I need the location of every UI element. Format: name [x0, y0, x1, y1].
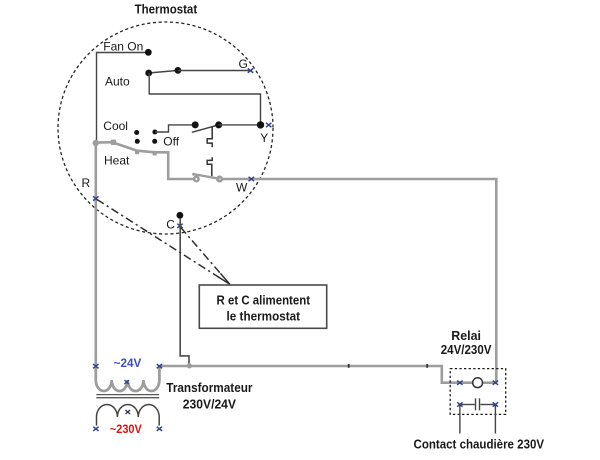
- terminal relay coil right (x mark): [493, 381, 498, 385]
- center tap mark primary (x mark): [126, 410, 131, 414]
- svg-text:R et C alimentent: R et C alimentent: [217, 293, 311, 308]
- contact cool row right (dot): [152, 130, 157, 135]
- contact nub heat row left: [135, 150, 139, 155]
- wire R riser (gray) to transformer: [95, 143, 98, 366]
- svg-text:~24V: ~24V: [114, 358, 142, 370]
- svg-text:Transformateur: Transformateur: [166, 380, 252, 395]
- transformer core lines: [96, 395, 159, 398]
- terminal transformer 24V right (x mark): [157, 364, 162, 368]
- svg-text:Cool: Cool: [103, 119, 128, 133]
- terminal transformer 24V left (x mark): [93, 364, 98, 368]
- svg-text:C: C: [166, 217, 175, 231]
- relay coil (circle): [473, 378, 483, 388]
- transformer primary coil (dark): [97, 405, 160, 426]
- svg-text:le thermostat: le thermostat: [227, 308, 301, 323]
- terminal Y (x mark): [266, 123, 271, 127]
- switch cool (open blade): [192, 121, 223, 132]
- node junction C/bus (gray dot): [187, 363, 192, 368]
- contact off row left (dot): [135, 139, 140, 144]
- wire 24V bus (gray) transformer to relay coil: [159, 366, 473, 383]
- terminal contact right (x mark): [493, 402, 498, 406]
- contact off row right (dot): [152, 139, 157, 144]
- mechanical link cool/heat (zigzag dashed): [207, 127, 212, 176]
- svg-text:Off: Off: [163, 135, 179, 149]
- pivot blob on heat blade: [111, 140, 116, 145]
- node Y junction (dot): [257, 121, 264, 128]
- svg-text:W: W: [236, 181, 248, 195]
- terminal C (dot): [177, 212, 184, 219]
- terminal relay coil left (x mark): [457, 381, 462, 385]
- callout leader from R (dash-dot): [97, 200, 230, 285]
- svg-text:Heat: Heat: [104, 154, 130, 168]
- terminal transformer 230V left (x mark): [93, 427, 98, 431]
- switch fan selector blade (Auto position): [145, 67, 181, 76]
- junction tick on bus (left): [348, 364, 350, 368]
- relay enclosure (dashed box): [450, 369, 506, 415]
- terminal contact left (x mark): [457, 402, 462, 406]
- contact nub heat row right: [153, 151, 157, 156]
- contact Fan On (dot): [145, 49, 152, 56]
- relay contact (normally open): [460, 398, 496, 410]
- svg-text:230V/24V: 230V/24V: [183, 396, 237, 411]
- svg-text:24V/230V: 24V/230V: [441, 342, 492, 357]
- svg-text:Relai: Relai: [451, 328, 481, 343]
- wire C to 24V bus: [180, 218, 189, 366]
- wire relay coil to W line (gray): [481, 381, 497, 384]
- wire W (gray) to relay: [221, 179, 496, 383]
- callout leader from C (dash-dot): [181, 228, 230, 285]
- terminal G (x mark): [248, 68, 253, 72]
- center tap mark secondary (x mark): [124, 380, 129, 384]
- terminal transformer 230V right (x mark): [157, 427, 162, 431]
- svg-text:R: R: [82, 176, 91, 190]
- svg-text:G: G: [239, 57, 248, 71]
- switch heat (closed blade, gray): [192, 173, 222, 182]
- terminal W (x mark): [249, 177, 254, 181]
- terminal C (x mark): [177, 224, 182, 228]
- thermostat enclosure (dashed circle): [58, 22, 273, 234]
- wire contact output right: [494, 405, 496, 434]
- wire cool switch to Y node: [219, 124, 261, 126]
- wire fan blade to G terminal: [178, 70, 251, 72]
- svg-text:Auto: Auto: [105, 75, 130, 89]
- svg-text:~230V: ~230V: [110, 422, 142, 436]
- svg-text:Y: Y: [260, 131, 268, 145]
- blade heat selector (gray): [96, 142, 194, 179]
- wire R riser to Fan On contact: [97, 53, 149, 143]
- callout box: [199, 285, 326, 328]
- wire auto contact to Y node: [149, 73, 260, 125]
- svg-text:Fan On: Fan On: [103, 39, 143, 53]
- svg-text:Thermostat: Thermostat: [135, 2, 198, 17]
- contact cool row left (dot): [134, 130, 139, 135]
- junction tick on bus (right): [426, 364, 428, 368]
- wire contact output left: [459, 405, 461, 434]
- svg-text:Contact chaudière 230V: Contact chaudière 230V: [414, 436, 545, 451]
- transformer secondary coil (gray): [96, 367, 160, 391]
- wire cool contact to cool switch: [155, 125, 193, 132]
- terminal R (x mark): [93, 196, 98, 200]
- node R junction (gray dot): [93, 140, 99, 146]
